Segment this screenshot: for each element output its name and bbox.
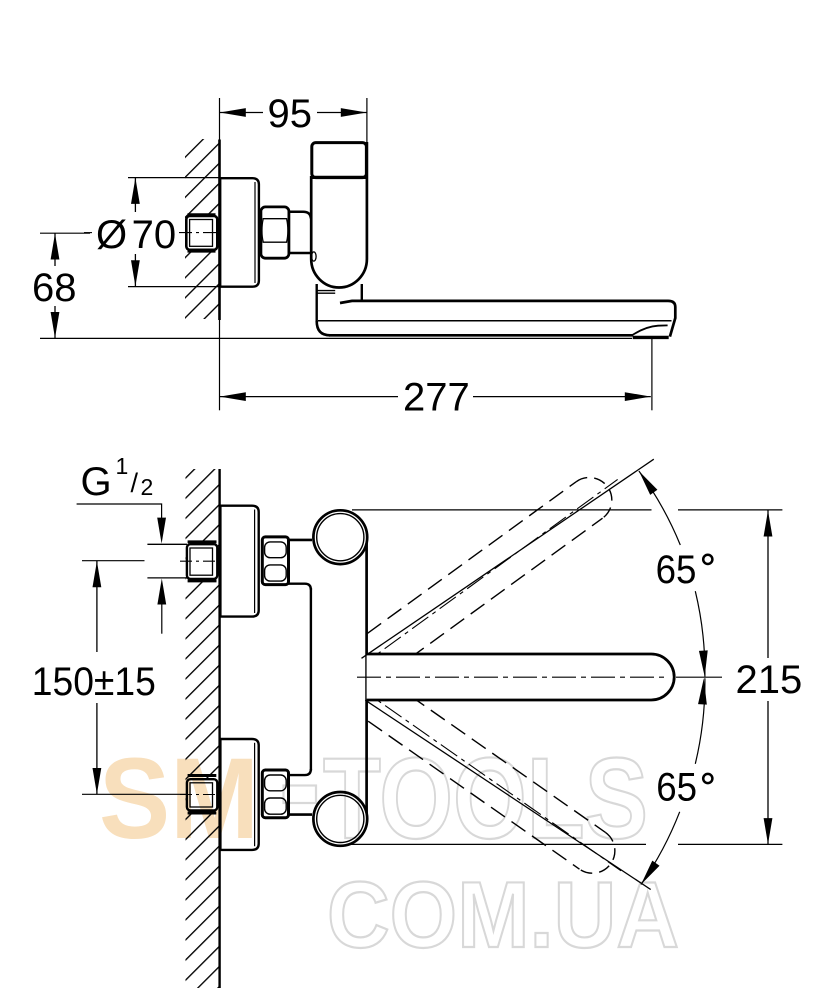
centerline (84, 232, 92, 234)
svg-text:COM.UA: COM.UA (327, 862, 679, 967)
union fitting top (188, 540, 217, 543)
hex nut (261, 207, 289, 258)
faucet body neck (316, 284, 318, 321)
escutcheon bottom (220, 739, 258, 850)
svg-text:G: G (81, 460, 112, 504)
hex nut bottom (262, 770, 288, 818)
escutcheon top (220, 506, 258, 617)
svg-text:95: 95 (268, 92, 313, 136)
connector stub (289, 212, 311, 219)
svg-text:TOOLS: TOOLS (323, 735, 648, 863)
svg-text:70: 70 (132, 213, 177, 257)
clip ring (317, 290, 336, 292)
watermark (99, 735, 679, 967)
svg-text:SM: SM (99, 735, 259, 863)
arc 65 lower (695, 678, 705, 764)
dim 68 (40, 232, 90, 234)
wire (219, 320, 221, 410)
pivot circle top (313, 510, 367, 564)
65 deg extension line upper (362, 459, 654, 658)
dim 150+-15 (82, 560, 145, 562)
svg-text:Ø: Ø (96, 213, 127, 257)
wall (218, 469, 220, 988)
dim 215 (352, 509, 652, 511)
hex nut top (262, 537, 288, 585)
wall hatching (186, 469, 220, 988)
spout inner line (318, 320, 672, 322)
svg-text:277: 277 (403, 376, 470, 420)
supply pipe (147, 543, 187, 545)
65 deg extension line lower (365, 700, 650, 889)
leader G 1/2 (77, 504, 162, 519)
svg-text:65: 65 (656, 548, 697, 592)
spout bottom (329, 334, 633, 337)
union fitting bottom (188, 774, 217, 777)
svg-text:65: 65 (656, 766, 697, 810)
svg-text:1: 1 (116, 453, 129, 479)
faucet body (311, 142, 367, 287)
wall hatching (185, 139, 220, 319)
dim diameter 70 (128, 177, 220, 179)
svg-text:68: 68 (32, 266, 77, 310)
spout top (340, 301, 675, 337)
body cap (312, 143, 367, 178)
svg-text:150±15: 150±15 (32, 660, 156, 704)
svg-text:/: / (131, 468, 139, 498)
svg-text:2: 2 (141, 474, 154, 500)
spout swung down (dashed) (344, 667, 634, 889)
svg-text:215: 215 (736, 658, 803, 702)
column (311, 530, 367, 830)
spout centerline (357, 676, 668, 678)
spout (front) (367, 654, 675, 700)
dim 277 (651, 339, 653, 411)
escutcheon (220, 178, 259, 287)
union fitting (188, 213, 216, 216)
baseline (40, 337, 632, 339)
aerator (632, 325, 668, 335)
wire (219, 98, 221, 140)
dim 95 (366, 98, 368, 142)
arc 65 upper (639, 471, 680, 545)
spout swung up (dashed) (343, 461, 631, 687)
body detail (312, 252, 317, 261)
wall (218, 140, 221, 321)
pivot circle bottom (313, 792, 367, 846)
